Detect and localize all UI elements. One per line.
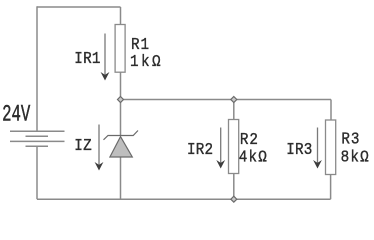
- svg-text:4kΩ: 4kΩ: [239, 147, 268, 166]
- svg-text:8kΩ: 8kΩ: [341, 147, 370, 166]
- svg-text:IR3: IR3: [286, 140, 312, 159]
- svg-text:24V: 24V: [2, 102, 30, 128]
- svg-text:IR1: IR1: [74, 49, 100, 68]
- svg-text:1kΩ: 1kΩ: [130, 52, 163, 71]
- svg-text:IR2: IR2: [187, 140, 213, 159]
- svg-text:IZ: IZ: [74, 136, 92, 155]
- svg-text:R3: R3: [341, 130, 360, 149]
